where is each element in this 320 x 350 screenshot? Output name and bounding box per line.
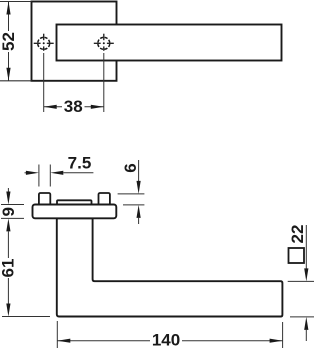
square cross-section symbol [289, 248, 305, 263]
side view: left screw boss tab [39, 193, 50, 206]
dimension 61 (vertical) [0, 231, 18, 316]
extension line bottom left (52 dim lower) [0, 80, 32, 82]
extension line top left (52 dim upper) [0, 1, 32, 3]
dimension 22 (vertical, lever cross-section) [288, 225, 308, 341]
side view: right screw boss tab [99, 193, 110, 206]
extension lines 6 [118, 194, 145, 205]
extension line from left crosshair down [43, 53, 45, 112]
dimension 140 (horizontal, lever length) [57, 331, 282, 350]
dimension 6 (vertical, tab height) [121, 160, 141, 224]
extension lines 7.5 [39, 165, 50, 187]
dimension 38 (horizontal, below top view) [44, 97, 104, 116]
screw position crosshair left [34, 34, 54, 51]
side view: lever handle L-shaped body [57, 218, 283, 316]
side view: centre bearing bump [57, 200, 92, 208]
svg-text:6: 6 [121, 163, 140, 172]
top view: square rose plate [32, 2, 117, 81]
svg-text:61: 61 [0, 259, 18, 278]
svg-text:52: 52 [0, 32, 18, 51]
svg-text:9: 9 [0, 207, 18, 216]
screw position crosshair right [94, 34, 114, 51]
extension line 61 lower [2, 316, 50, 318]
svg-text:7.5: 7.5 [68, 153, 92, 172]
extension lines 140 [57, 321, 282, 348]
svg-text:38: 38 [64, 97, 83, 116]
side view: rose plate edge-on [33, 205, 117, 219]
extension line 9 upper [1, 204, 24, 206]
svg-text:22: 22 [288, 225, 307, 244]
top view: lever bar [57, 25, 282, 61]
dimension 9 (vertical, rose thickness) [0, 188, 18, 231]
svg-text:140: 140 [152, 331, 180, 350]
extension lines 22 [288, 281, 314, 317]
dimension 52 (vertical, left of top view) [0, 2, 18, 81]
extension line 9/61 shared [1, 217, 24, 219]
dimension 7.5 (horizontal, tab width) [25, 153, 94, 175]
extension line from right crosshair down [103, 53, 105, 112]
